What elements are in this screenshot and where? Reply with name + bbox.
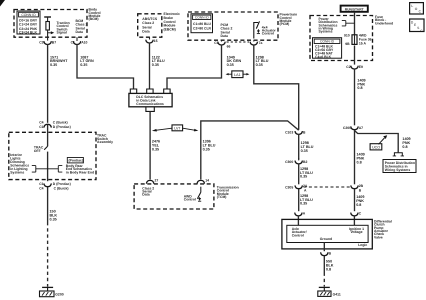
page corner marker bbox=[0, 0, 5, 7]
switch assembly dashed box bbox=[9, 132, 96, 179]
svg-text:0.8: 0.8 bbox=[402, 145, 407, 149]
wire 1298 LT BLU (PCM 7a to C103) bbox=[254, 45, 299, 130]
wire 150 BLK to ground G200 bbox=[48, 187, 58, 287]
connector C2/E9 bbox=[346, 65, 363, 69]
svg-text:A7: A7 bbox=[359, 126, 363, 130]
reference box Power Distribution Schematics in Wiring Systems bbox=[383, 160, 416, 173]
switch TRAC OFF bbox=[34, 146, 48, 182]
wire 1298 LT BLU (C103 to C300) bbox=[299, 134, 314, 160]
svg-text:(BCM): (BCM) bbox=[89, 17, 99, 21]
RUN/START feed box bbox=[341, 6, 368, 12]
svg-text:Communications: Communications bbox=[136, 102, 164, 106]
svg-text:O: O bbox=[415, 7, 418, 11]
label PCM Class 2 Serial Data bbox=[221, 23, 233, 38]
svg-text:C1: C1 bbox=[214, 41, 218, 45]
svg-text:C300: C300 bbox=[285, 160, 293, 164]
svg-text:C2: C2 bbox=[346, 65, 350, 69]
legend box DESC bbox=[410, 19, 424, 33]
label BCM Class 2 Serial Data bbox=[76, 19, 88, 34]
svg-text:910: 910 bbox=[344, 33, 350, 37]
ground G200 bbox=[40, 287, 64, 296]
bracket to power distribution box (bottom) bbox=[393, 153, 404, 156]
DLC top tab 2 bbox=[147, 89, 153, 93]
svg-text:0.35: 0.35 bbox=[152, 63, 159, 67]
wire fuse to C2/E9 bbox=[354, 46, 356, 65]
svg-text:CONN ID: CONN ID bbox=[21, 13, 36, 17]
svg-text:0.35: 0.35 bbox=[227, 63, 234, 67]
PCM pin C1/66 connector bbox=[214, 40, 230, 48]
module Fuse Block Underhood dashed box bbox=[310, 16, 373, 61]
svg-text:0.35: 0.35 bbox=[300, 175, 307, 179]
svg-text:Control: Control bbox=[184, 198, 196, 202]
svg-text:C4=6 BLK: C4=6 BLK bbox=[315, 55, 332, 59]
wire 550 BLK to ground bbox=[324, 256, 334, 287]
svg-text:(Pontiac): (Pontiac) bbox=[69, 159, 84, 163]
svg-text:(EBCM): (EBCM) bbox=[164, 27, 176, 31]
svg-text:14: 14 bbox=[205, 178, 209, 182]
svg-text:OFF: OFF bbox=[34, 149, 41, 153]
svg-text:Data: Data bbox=[142, 193, 149, 197]
DLC bottom tab bbox=[146, 107, 154, 112]
connector C305 pin 2A/A bbox=[285, 184, 308, 192]
TCM pin 27 connector bbox=[146, 178, 158, 183]
svg-text:UCO: UCO bbox=[372, 146, 380, 150]
arrow traction control switch signal bbox=[48, 31, 55, 34]
svg-text:0.8: 0.8 bbox=[357, 161, 362, 165]
wire 1122 LT BLU (EBCM to DLC) bbox=[150, 43, 165, 89]
connector C200 pin A7 bbox=[343, 126, 363, 130]
module PCM dashed box bbox=[188, 12, 278, 40]
resistor (traction control switch signal pull-up) bbox=[44, 17, 51, 41]
svg-text:0.35: 0.35 bbox=[203, 147, 210, 151]
svg-text:CONN ID: CONN ID bbox=[320, 40, 335, 44]
connector C1/C4 (lower, Pontiac/Buick) bbox=[39, 182, 71, 190]
legend box LOC bbox=[410, 3, 424, 14]
svg-text:Logic: Logic bbox=[358, 243, 367, 247]
TCM internal AWD control driver bbox=[197, 187, 201, 202]
svg-text:Ground: Ground bbox=[320, 237, 332, 241]
BCM CONN ID table bbox=[17, 11, 40, 35]
svg-text:Assembly: Assembly bbox=[97, 140, 113, 144]
svg-text:Systems: Systems bbox=[319, 30, 333, 34]
svg-text:0.8: 0.8 bbox=[326, 267, 331, 271]
label Fuse Block - Underhood bbox=[375, 15, 393, 25]
svg-text:C200: C200 bbox=[343, 126, 351, 130]
svg-text:G200: G200 bbox=[55, 293, 63, 297]
svg-text:Data: Data bbox=[76, 30, 83, 34]
svg-text:E9: E9 bbox=[359, 65, 363, 69]
label 4x4 Actuator Control bbox=[262, 25, 277, 35]
differential clutch pump actuator outer box bbox=[282, 219, 372, 249]
differential clutch pump actuator inner logic box bbox=[287, 225, 368, 247]
svg-text:9B: 9B bbox=[345, 42, 350, 46]
svg-text:0.35: 0.35 bbox=[256, 63, 263, 67]
fuse block CONN ID table bbox=[313, 38, 342, 60]
wire 2476 YEL (DLC to TCM 27) bbox=[150, 111, 160, 179]
svg-text:Voltage: Voltage bbox=[351, 230, 363, 234]
connector C103 pin B bbox=[285, 131, 306, 135]
label TRAC Switch Assembly bbox=[97, 134, 113, 144]
svg-text:C1: C1 bbox=[71, 40, 75, 44]
wire 1409 PNK branch to power distribution bbox=[355, 131, 411, 153]
fuse 4WD Fuse 36 15 A bbox=[344, 33, 372, 46]
wire TCM AWD control branch (C103 junction to TCM 14) bbox=[201, 121, 299, 180]
label Class 2 Serial Data (TCM) bbox=[142, 186, 154, 196]
svg-text:Underhood: Underhood bbox=[375, 21, 393, 25]
svg-text:L: L bbox=[411, 4, 413, 8]
svg-text:27: 27 bbox=[155, 178, 159, 182]
svg-text:Valve: Valve bbox=[374, 235, 383, 239]
svg-text:RUN/START: RUN/START bbox=[345, 7, 364, 11]
label Body Control Module (BCM) bbox=[89, 8, 101, 22]
svg-text:7a: 7a bbox=[259, 41, 263, 45]
module BCM (Body Control Module) dashed box bbox=[14, 10, 87, 38]
svg-text:Control: Control bbox=[262, 32, 274, 36]
svg-text:B2: B2 bbox=[303, 160, 307, 164]
svg-text:C4: C4 bbox=[39, 186, 43, 190]
label Power Distribution Schematics in Wiring Systems (top) bbox=[319, 17, 338, 34]
svg-text:Data: Data bbox=[142, 30, 149, 34]
svg-text:0.35: 0.35 bbox=[300, 202, 307, 206]
actuator pin A connector bbox=[295, 211, 306, 225]
BCM pin C1/A10 connector bbox=[71, 37, 88, 44]
svg-text:LV7: LV7 bbox=[174, 127, 180, 131]
svg-text:0.35: 0.35 bbox=[152, 147, 159, 151]
svg-text:LA1: LA1 bbox=[234, 73, 241, 77]
reference box (Pontiac) Body Rear End bbox=[66, 158, 94, 175]
label Interior Lights Dimming Schematics in Lighting Systems bbox=[10, 153, 29, 175]
option box LA1 bbox=[226, 71, 250, 78]
svg-text:(TCM): (TCM) bbox=[217, 195, 227, 199]
label Transmission Control Module (TCM) bbox=[217, 186, 239, 200]
connector C4/C1 (upper, Buick/Pontiac) bbox=[39, 120, 71, 128]
svg-text:15: 15 bbox=[154, 39, 158, 43]
svg-text:A10: A10 bbox=[81, 40, 87, 44]
svg-text:0.8: 0.8 bbox=[357, 86, 362, 90]
svg-text:D (Pontiac): D (Pontiac) bbox=[53, 125, 71, 129]
wire 1298 LT BLU (C300 to C305) bbox=[299, 164, 313, 185]
ground G411 bbox=[318, 287, 341, 296]
wire 1409 PNK (C2/E9 to C200) bbox=[355, 69, 366, 126]
svg-text:2B: 2B bbox=[359, 184, 364, 188]
svg-text:C1: C1 bbox=[39, 125, 43, 129]
svg-text:Wiring Systems: Wiring Systems bbox=[385, 168, 411, 172]
svg-text:C3=24 BLK: C3=24 BLK bbox=[19, 31, 38, 35]
svg-text:C1: C1 bbox=[39, 182, 43, 186]
svg-text:C (Buick): C (Buick) bbox=[53, 120, 68, 124]
svg-text:D (Pontiac): D (Pontiac) bbox=[53, 182, 71, 186]
svg-text:C (Buick): C (Buick) bbox=[54, 186, 69, 190]
option box UCO with arrow bbox=[370, 135, 387, 150]
connector C300 pin B2 bbox=[285, 158, 307, 164]
wire 1409 PNK (C305 to pin C) bbox=[355, 189, 365, 212]
svg-text:(PCM): (PCM) bbox=[280, 22, 290, 26]
bracket interior lights reference line bbox=[32, 166, 63, 173]
svg-text:C1=80 BLU: C1=80 BLU bbox=[193, 22, 212, 26]
bracket power distribution reference bbox=[342, 21, 355, 26]
DLC box (Data Link Connector) bbox=[129, 93, 172, 106]
actuator pin B connector bbox=[321, 251, 332, 255]
wire connector to switch bbox=[47, 125, 49, 147]
label Electronic Brake Control Module (EBCM) bbox=[164, 12, 181, 31]
svg-text:G411: G411 bbox=[333, 292, 341, 296]
svg-text:C3: C3 bbox=[39, 40, 43, 44]
wire 1298 LT BLU (C305 to pin A) bbox=[299, 189, 313, 212]
wire RUN/START to fuse bbox=[354, 12, 356, 35]
svg-text:0.35: 0.35 bbox=[80, 63, 87, 67]
TCM pin 14 connector bbox=[197, 178, 209, 183]
svg-text:66: 66 bbox=[227, 45, 231, 49]
svg-text:0.35: 0.35 bbox=[301, 149, 308, 153]
C305 connector dashed line bbox=[304, 186, 352, 188]
wire ground internal bbox=[323, 243, 325, 252]
wire 1571 BRN/WHT (BCM B7 to TRAC switch) bbox=[48, 44, 69, 123]
PCM pin 7a connector bbox=[250, 40, 262, 45]
svg-text:15 A: 15 A bbox=[359, 41, 367, 45]
svg-text:2A: 2A bbox=[303, 184, 308, 188]
svg-text:0.8: 0.8 bbox=[356, 203, 361, 207]
module TCM dashed box bbox=[134, 184, 214, 209]
connector C305 pin 2B/B bbox=[351, 184, 364, 192]
svg-text:in Body Rear End: in Body Rear End bbox=[66, 171, 94, 175]
label Powertrain Control Module (PCM) bbox=[280, 13, 298, 27]
svg-text:CONN ID: CONN ID bbox=[195, 16, 210, 20]
svg-text:Control: Control bbox=[292, 233, 304, 237]
EBCM pin 15 connector bbox=[146, 37, 158, 43]
BCM pin C3/B7 connector bbox=[39, 40, 56, 44]
wire 1049 DK GRN (PCM 66 to DLC) bbox=[167, 45, 241, 89]
label AWD Control bbox=[184, 195, 196, 202]
svg-text:C103: C103 bbox=[285, 131, 293, 135]
svg-text:Signal: Signal bbox=[57, 31, 67, 35]
svg-text:0.35: 0.35 bbox=[50, 63, 57, 67]
label Differential Clutch Pump Actuator Check Valve bbox=[374, 219, 392, 239]
PCM connector dashed line bbox=[227, 41, 250, 43]
DLC top tab 1 bbox=[130, 89, 136, 93]
PCM CONN ID table bbox=[191, 14, 213, 33]
svg-text:Data: Data bbox=[221, 34, 228, 38]
module EBCM dashed box bbox=[138, 14, 162, 37]
svg-text:B7: B7 bbox=[52, 40, 56, 44]
label Traction Control Switch Signal bbox=[57, 21, 70, 35]
wire 1087 LT GRN (BCM A10 to DLC) bbox=[77, 44, 134, 89]
DLC top tab 3 bbox=[164, 89, 170, 93]
PCM internal 4x4 actuator driver bbox=[254, 21, 260, 38]
actuator pin C connector bbox=[351, 211, 362, 225]
option box LV7 with arrows bbox=[152, 125, 198, 132]
svg-text:Systems: Systems bbox=[10, 171, 24, 175]
wire 1409 PNK main (C200 to C305) bbox=[355, 130, 365, 185]
svg-text:0.35: 0.35 bbox=[50, 217, 57, 221]
svg-text:C305: C305 bbox=[285, 186, 293, 190]
svg-text:C2=80 CLR: C2=80 CLR bbox=[193, 26, 212, 30]
svg-text:C4: C4 bbox=[39, 120, 43, 124]
